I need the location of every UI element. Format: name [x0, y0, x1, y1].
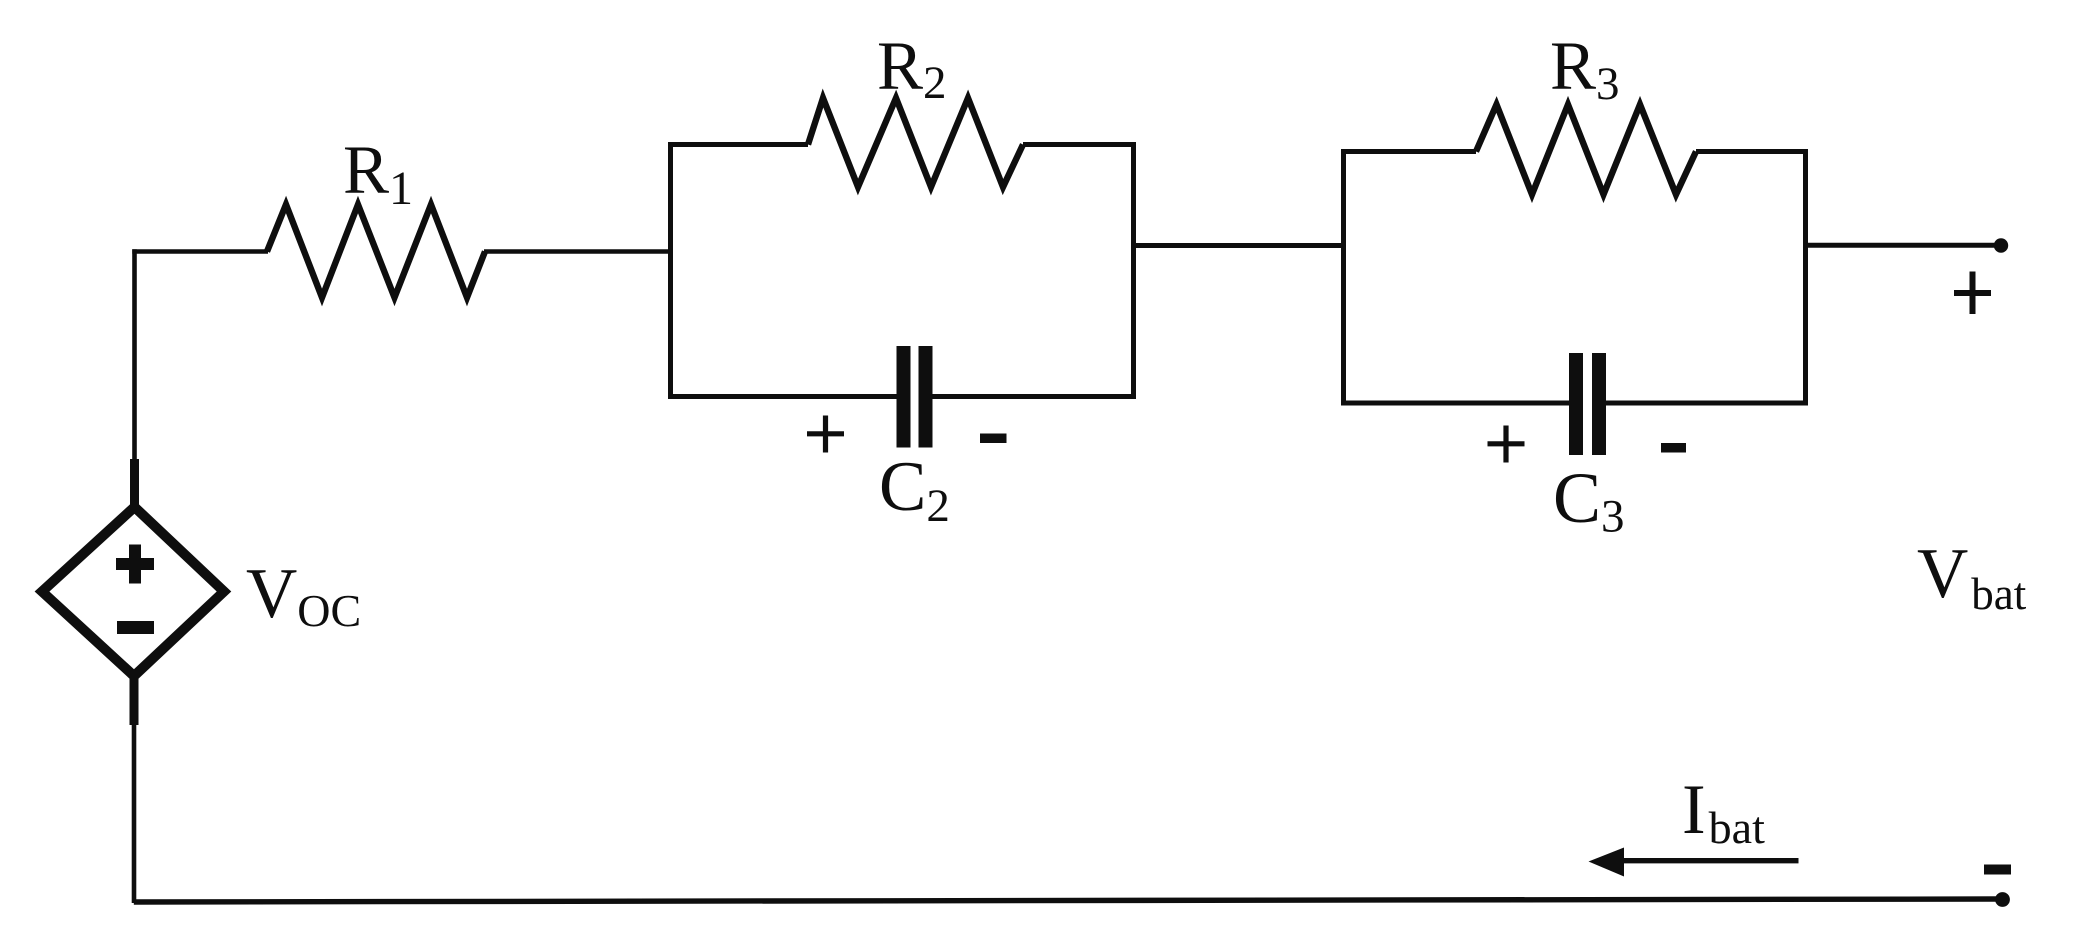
wire left vertical below source — [132, 723, 137, 903]
R3C3 box top edge segments — [1341, 149, 1808, 154]
terminal dot positive — [1994, 238, 2008, 252]
R3C3 box right edge — [1803, 149, 1808, 406]
capacitor C3 left plate — [1569, 353, 1583, 455]
svg-text:Vbat: Vbat — [1917, 535, 2027, 619]
source V_OC minus mark — [117, 621, 154, 634]
svg-text:C3: C3 — [1553, 458, 1625, 543]
capacitor C3 right plate — [1592, 353, 1606, 455]
wire R1 to R2C2 block — [484, 249, 670, 254]
svg-text:C2: C2 — [879, 448, 950, 532]
source V_OC diamond — [42, 507, 224, 676]
svg-text:R1: R1 — [343, 132, 413, 215]
R2C2 box left edge — [668, 142, 673, 399]
capacitor C3 minus polarity mark — [1661, 443, 1686, 453]
resistor R3 zigzag — [1476, 105, 1696, 195]
svg-text:Ibat: Ibat — [1682, 771, 1765, 853]
R3C3 box bottom edge segments — [1341, 401, 1808, 406]
source V_OC bottom lead stub — [130, 677, 139, 725]
svg-text:VOC: VOC — [246, 555, 361, 636]
svg-text:R3: R3 — [1550, 28, 1620, 110]
svg-text:R2: R2 — [877, 28, 947, 109]
R2C2 box bottom edge segments — [668, 394, 1136, 399]
resistor R2 zigzag — [808, 98, 1023, 187]
source V_OC top lead stub — [130, 459, 139, 507]
source V_OC plus mark — [116, 545, 154, 584]
capacitor C2 plus polarity mark — [807, 416, 844, 453]
R2C2 box right edge — [1131, 142, 1136, 399]
current arrow I_bat head — [1589, 848, 1625, 877]
minus mark at negative terminal — [1984, 865, 2011, 875]
capacitor C2 right plate — [919, 346, 933, 448]
wire top-left horizontal (node A to R1) — [132, 249, 268, 254]
capacitor C3 plus polarity mark — [1488, 426, 1525, 463]
plus mark at positive terminal — [1954, 272, 1991, 315]
wire R2C2 block to R3C3 block — [1134, 243, 1345, 248]
R3C3 box left edge — [1341, 149, 1346, 406]
capacitor C2 minus polarity mark — [980, 434, 1007, 444]
wire left vertical (node A down to source) — [132, 249, 137, 461]
wire R3C3 block to positive terminal — [1806, 243, 1997, 248]
R2C2 box top edge segments — [668, 142, 1136, 147]
capacitor C2 left plate — [897, 346, 911, 448]
resistor R1 zigzag — [267, 205, 485, 298]
terminal dot negative — [1995, 892, 2010, 907]
wire bottom return — [134, 899, 1998, 902]
current arrow I_bat shaft — [1620, 858, 1799, 863]
